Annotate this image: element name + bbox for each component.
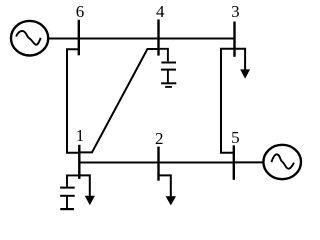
wire bus 6 to bus 1	[67, 49, 79, 152]
svg-text:5: 5	[231, 128, 240, 147]
bus 6	[78, 20, 80, 56]
ground at bus 1	[60, 196, 74, 209]
capacitor at bus 4	[159, 49, 177, 70]
bus 4	[157, 19, 159, 55]
wire G1 to bus 6	[48, 38, 79, 40]
wire bus 1 to bus 4 (diagonal)	[79, 49, 158, 152]
wire bus 3 to bus 5	[221, 49, 235, 153]
ground at bus 4	[161, 70, 176, 87]
load arrow at bus 3	[235, 49, 251, 79]
generator G2	[263, 145, 301, 179]
svg-text:1: 1	[76, 126, 85, 145]
svg-text:6: 6	[76, 2, 85, 21]
wire bus 4 to bus 3	[159, 38, 235, 40]
load arrow at bus 1	[79, 175, 95, 205]
wire bus 1 to bus 2	[79, 162, 158, 164]
bus 2	[157, 147, 159, 181]
svg-text:4: 4	[156, 2, 165, 21]
capacitor at bus 1	[60, 175, 79, 195]
bus 1	[78, 145, 80, 179]
generator G1	[11, 21, 48, 56]
wire bus 5 to G2	[234, 161, 264, 163]
wire bus 2 to bus 5	[159, 162, 234, 164]
bus 3	[233, 22, 235, 57]
bus 5	[233, 145, 235, 180]
svg-text:3: 3	[231, 2, 240, 21]
svg-text:2: 2	[155, 129, 164, 148]
wire bus 6 to bus 4	[79, 38, 159, 40]
load arrow at bus 2	[159, 175, 177, 205]
